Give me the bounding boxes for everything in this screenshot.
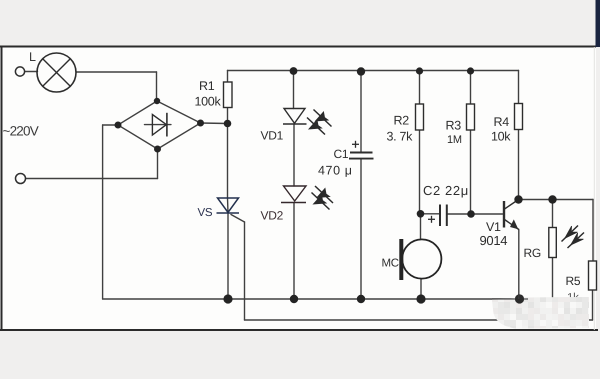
svg-text:MC: MC bbox=[382, 258, 399, 270]
svg-text:C2 22μ: C2 22μ bbox=[423, 183, 469, 198]
svg-text:L: L bbox=[29, 50, 36, 64]
svg-text:10k: 10k bbox=[491, 130, 511, 144]
svg-text:VD1: VD1 bbox=[261, 129, 284, 143]
svg-text:R5: R5 bbox=[566, 274, 581, 288]
svg-text:C1: C1 bbox=[334, 147, 349, 161]
svg-text:100k: 100k bbox=[195, 95, 222, 109]
svg-text:RG: RG bbox=[524, 246, 541, 260]
svg-text:9014: 9014 bbox=[480, 233, 508, 248]
svg-text:R1: R1 bbox=[199, 79, 215, 93]
svg-text:VS: VS bbox=[198, 207, 213, 219]
svg-text:~220V: ~220V bbox=[3, 124, 39, 139]
svg-text:1M: 1M bbox=[447, 134, 462, 146]
svg-text:V1: V1 bbox=[486, 220, 501, 234]
svg-text:R4: R4 bbox=[494, 115, 510, 129]
svg-text:R3: R3 bbox=[446, 119, 462, 133]
svg-text:R2: R2 bbox=[394, 114, 410, 128]
svg-text:VD2: VD2 bbox=[261, 209, 284, 223]
svg-text:3. 7k: 3. 7k bbox=[387, 130, 414, 144]
svg-text:470 μ: 470 μ bbox=[318, 164, 353, 178]
